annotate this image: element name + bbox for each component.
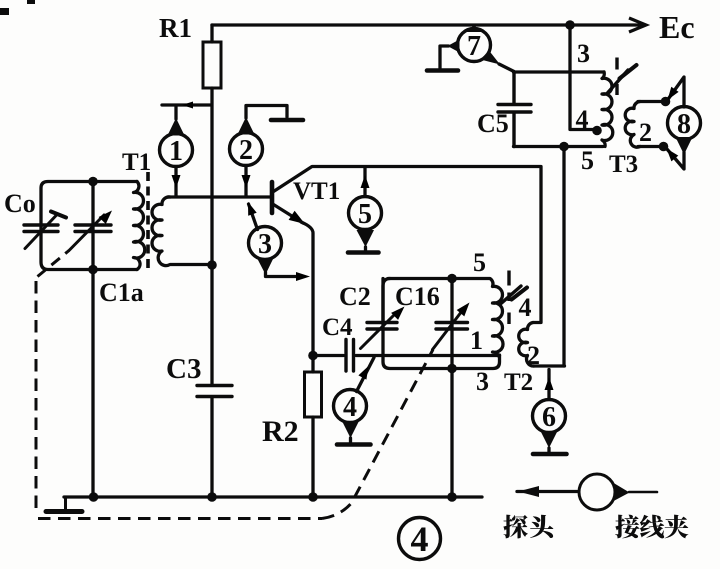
junction C1a branch on bus <box>89 492 99 502</box>
dashed gang link to C1a <box>38 251 70 277</box>
wire T3 pin5 to T2 pin2 <box>562 147 565 367</box>
probe 6 clip ground <box>547 448 550 452</box>
legend clip wire <box>629 491 657 494</box>
svg-text:C4: C4 <box>322 314 353 341</box>
winding T3 primary <box>602 72 613 147</box>
svg-text:C2: C2 <box>339 282 371 311</box>
junction C16 branch on bus <box>447 492 457 502</box>
probe 2 clip triangle <box>238 117 255 135</box>
svg-text:5: 5 <box>581 146 594 175</box>
arrow T2 adjustable core <box>501 286 521 304</box>
wire C16 branch <box>450 279 453 498</box>
node C1a bottom junction <box>88 265 98 275</box>
svg-text:4: 4 <box>576 105 589 134</box>
probe 2 clip wire <box>246 106 287 119</box>
svg-text:2: 2 <box>239 135 253 166</box>
node emitter / C4 junction <box>308 351 318 361</box>
probe 3 clip wire to emitter <box>266 272 297 277</box>
svg-text:4: 4 <box>343 392 357 423</box>
svg-text:5: 5 <box>358 199 372 230</box>
wire left tank frame <box>41 182 137 270</box>
arrow C1a gang <box>69 215 104 251</box>
svg-text:Co: Co <box>4 189 36 218</box>
probe 4 tip wire to C4 node <box>357 358 375 392</box>
wire T2 secondary bottom <box>533 364 565 367</box>
probe 6 circle <box>533 400 566 433</box>
capacitor Co variable plates <box>24 225 58 232</box>
junction R2 branch on bus <box>308 492 318 502</box>
probe 5 clip triangle <box>357 230 375 247</box>
probe 1 tip wire to base <box>174 167 177 197</box>
probe 7 circle <box>458 29 491 62</box>
probe 2 clip ground bar <box>271 118 303 123</box>
wire Ec to T3 tap 4 <box>570 25 595 130</box>
core T3 dashed <box>615 58 618 96</box>
wire ground bus <box>64 495 482 498</box>
probe 5 tip wire to collector <box>363 168 366 197</box>
svg-text:C3: C3 <box>166 353 201 385</box>
node probe 8 bottom contact <box>659 142 669 152</box>
arrow C16 gang <box>433 311 463 350</box>
arrow Co trimmer <box>25 215 57 249</box>
svg-text:C1a: C1a <box>99 278 144 307</box>
wire Ec rail to R1 <box>210 25 213 42</box>
legend probe wire <box>517 490 578 493</box>
capacitor C5 <box>498 72 531 147</box>
winding T2 primary and top edge <box>388 279 503 357</box>
probe 7 right clip triangle <box>481 51 501 65</box>
probe 7 right clip wire <box>499 64 514 72</box>
winding T1 secondary <box>152 197 212 266</box>
svg-text:R2: R2 <box>262 415 299 448</box>
dashed gang link bottom <box>38 517 322 520</box>
svg-text:C16: C16 <box>395 282 440 311</box>
svg-text:2: 2 <box>639 118 652 147</box>
probe 1 clip wire to R1 line <box>162 105 211 119</box>
junction C3 branch on bus <box>207 492 217 502</box>
node junction on Ec rail <box>565 20 575 30</box>
core T1 dashed <box>146 172 150 270</box>
probe 5 circle <box>349 197 382 230</box>
figure number 4 circled <box>399 518 441 560</box>
svg-text:8: 8 <box>677 109 691 140</box>
capacitor C3 <box>197 386 232 397</box>
label clip (jiexianjia) <box>615 515 688 539</box>
winding T1 primary <box>134 182 145 270</box>
wire C5 top node <box>514 70 605 73</box>
probe 4 clip triangle <box>342 421 359 438</box>
probe 5 clip ground <box>364 247 367 251</box>
svg-text:R1: R1 <box>159 13 192 43</box>
wire R2 to ground bus <box>311 417 314 497</box>
svg-text:7: 7 <box>467 31 481 62</box>
wire T1 secondary top to VT1 base <box>168 195 270 198</box>
legend circle <box>579 474 615 510</box>
probe 3 clip triangle <box>257 258 274 275</box>
wire R1 to C3 <box>210 88 213 384</box>
svg-text:5: 5 <box>473 248 486 277</box>
svg-text:VT1: VT1 <box>293 178 340 205</box>
svg-text:3: 3 <box>577 39 590 68</box>
svg-text:4: 4 <box>411 519 429 559</box>
probe 8 clip wire bottom <box>667 149 685 170</box>
probe 7 left clip wire and ground bar <box>440 46 449 68</box>
wire C4 to tank <box>356 354 500 357</box>
node T3 tap 4 contact dot <box>592 126 602 136</box>
svg-text:T2: T2 <box>504 369 533 396</box>
dashed gang link to C16 <box>322 350 433 519</box>
svg-text:1: 1 <box>169 136 183 167</box>
node C16 top junction <box>447 274 457 284</box>
probe 2 tip wire to base <box>244 166 247 197</box>
probe 3 circle <box>249 227 282 260</box>
wire VT1 collector <box>274 167 542 323</box>
probe 4 clip ground <box>349 438 352 443</box>
probe 2 circle <box>230 133 263 166</box>
core T2 dashed <box>507 271 510 325</box>
probe 3 tip wire to base <box>249 204 258 230</box>
node T3 pin5 junction <box>559 142 569 152</box>
svg-text:C5: C5 <box>477 109 509 138</box>
transistor VT1 emitter <box>274 205 304 224</box>
wire T3 secondary top <box>638 100 662 103</box>
ground symbol bottom-left <box>64 497 67 509</box>
probe 1 circle <box>160 134 193 167</box>
probe 8 tip wire top <box>668 77 685 107</box>
probe 6 tip wire to T2 pin2 <box>547 370 550 400</box>
wire tank2 frame left-bottom <box>383 279 500 369</box>
node C1a top junction <box>88 177 98 187</box>
wire C3 to ground bus <box>210 398 213 498</box>
wire emitter to C4 <box>313 354 344 357</box>
wire C1a branch <box>91 182 94 498</box>
svg-text:1: 1 <box>470 326 483 355</box>
wire T3 secondary bottom <box>638 145 659 148</box>
wire C5 bottom node <box>514 145 604 148</box>
probe 4 circle <box>334 390 367 423</box>
arrow Ec rail right end <box>629 18 646 32</box>
winding T2 secondary <box>519 323 534 367</box>
node C16 bottom junction <box>447 364 457 374</box>
scan artifact top-left edge <box>0 8 9 15</box>
arrow T3 adjustable core <box>607 70 628 94</box>
resistor R1 <box>203 42 221 88</box>
label probe (tantou) <box>503 515 553 539</box>
svg-text:6: 6 <box>542 402 556 433</box>
svg-text:4: 4 <box>519 293 532 322</box>
dashed gang link left side <box>35 281 38 513</box>
capacitor C16 variable plates <box>436 323 468 330</box>
svg-text:2: 2 <box>527 341 540 370</box>
svg-text:T1: T1 <box>122 149 151 176</box>
wire tank2 frame left upper <box>381 279 384 322</box>
arrow C2 gang <box>361 312 398 349</box>
legend clip triangle <box>615 484 630 501</box>
probe 6 clip triangle <box>541 431 558 448</box>
probe 7 left clip triangle <box>448 40 460 53</box>
svg-text:3: 3 <box>258 229 272 260</box>
transistor VT1 base bar <box>270 182 275 213</box>
probe 7 tip triangle on Ec rail <box>467 25 482 32</box>
node T1 secondary bottom to R1 line <box>207 260 217 270</box>
probe 8 clip triangle <box>676 137 693 155</box>
node probe 8 top contact <box>661 97 671 107</box>
wire Ec supply rail <box>212 23 642 26</box>
probe 1 clip triangle <box>168 118 185 136</box>
capacitor C2 variable plates <box>367 323 397 330</box>
resistor R2 <box>305 372 322 417</box>
probe 8 circle <box>668 107 701 140</box>
svg-text:T3: T3 <box>609 151 638 178</box>
winding T3 secondary <box>625 102 640 148</box>
capacitor C1a variable plates <box>75 225 111 232</box>
capacitor C4 <box>346 340 354 372</box>
svg-text:3: 3 <box>476 367 489 396</box>
svg-text:Ec: Ec <box>659 9 695 45</box>
